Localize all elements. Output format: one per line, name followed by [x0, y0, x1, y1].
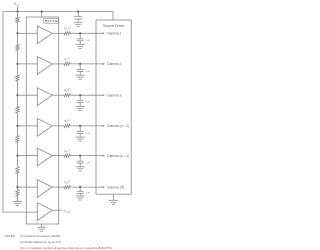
- svg-text:1 nF: 1 nF: [86, 163, 91, 165]
- svg-text:NOTES:: NOTES:: [5, 234, 16, 238]
- svg-text:1 nF: 1 nF: [86, 193, 91, 195]
- svg-text:Gamma (n – 2): Gamma (n – 2): [107, 124, 129, 128]
- svg-text:Gamma (n – 1): Gamma (n – 1): [107, 154, 129, 158]
- svg-text:(2) Stable without RS up to 3: (2) Stable without RS up to 3 nF.: [20, 240, 62, 245]
- svg-text:1 nF: 1 nF: [86, 133, 91, 135]
- svg-text:1 nF: 1 nF: [86, 40, 91, 42]
- svg-text:Source Driver: Source Driver: [103, 24, 126, 28]
- svg-text:(3) n = maximum number of gamm: (3) n = maximum number of gamma channels…: [20, 246, 113, 250]
- svg-text:Gamma 2: Gamma 2: [107, 62, 122, 66]
- svg-text:(1) Optional; increases stabil: (1) Optional; increases stability.: [20, 234, 61, 238]
- svg-text:BUF07703: BUF07703: [45, 19, 58, 23]
- svg-text:1 nF: 1 nF: [86, 102, 91, 104]
- svg-text:1 nF: 1 nF: [86, 71, 91, 73]
- svg-text:Gamma 3: Gamma 3: [107, 94, 122, 98]
- svg-text:Gamma 1: Gamma 1: [107, 32, 122, 36]
- svg-text:COM: COM: [66, 212, 71, 214]
